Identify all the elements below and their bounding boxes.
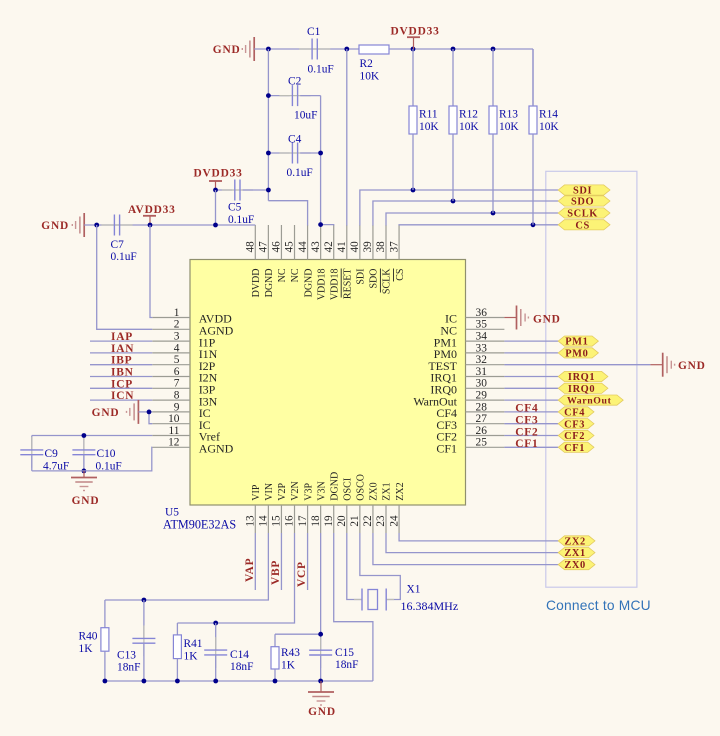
node C4 left junction — [266, 151, 271, 156]
node C14 top junction — [213, 621, 218, 626]
resistor R11 10K — [412, 49, 414, 106]
svg-text:30: 30 — [476, 378, 488, 390]
svg-text:9: 9 — [174, 401, 180, 413]
svg-text:C7: C7 — [111, 239, 125, 251]
svg-text:10K: 10K — [360, 71, 380, 83]
svg-text:SCLK: SCLK — [382, 268, 393, 294]
pin 20 OSCI (bottom) — [346, 505, 348, 533]
wire DGND pin 19 to bus — [334, 533, 373, 681]
svg-text:X1: X1 — [407, 584, 421, 596]
svg-text:DVDD: DVDD — [251, 269, 262, 298]
svg-text:ZX1: ZX1 — [382, 482, 393, 500]
svg-text:GND: GND — [308, 706, 336, 718]
svg-text:VIN: VIN — [264, 483, 275, 501]
svg-text:C5: C5 — [228, 202, 242, 214]
svg-text:47: 47 — [258, 241, 270, 253]
wire V2N pin 16 to R41 C14 bus — [177, 533, 294, 623]
pin 23 ZX1 (bottom) — [385, 505, 387, 533]
pin 38 SCLK (top) — [385, 225, 387, 260]
pin 11 Vref (left) — [152, 435, 190, 437]
svg-text:1K: 1K — [79, 643, 94, 655]
svg-text:SDI: SDI — [356, 269, 367, 285]
svg-text:OSCO: OSCO — [356, 474, 367, 501]
wire R13 lead — [492, 134, 494, 213]
node R11 R12 R13 R14 to SPI wires — [411, 188, 416, 193]
pin 32 TEST (right) — [466, 364, 505, 366]
wire R12 lead — [452, 134, 454, 201]
pin 29 WarnOut (right) — [466, 399, 505, 401]
svg-text:DVDD33: DVDD33 — [391, 26, 440, 38]
pin 15 V2P (bottom) — [280, 505, 282, 533]
pin 17 V3P (bottom) — [307, 505, 309, 533]
pin 13 VIP (bottom) — [254, 505, 256, 533]
svg-text:IBP: IBP — [111, 355, 132, 367]
svg-text:0.1uF: 0.1uF — [228, 214, 254, 226]
svg-text:C14: C14 — [230, 649, 249, 661]
svg-text:VAP: VAP — [244, 558, 256, 582]
wire SCLK pin 38 to flag — [386, 213, 558, 226]
port ZX1 flag — [558, 548, 595, 558]
svg-text:CF3: CF3 — [515, 415, 538, 427]
svg-text:18: 18 — [310, 515, 322, 527]
wire IRQ1 pin 31 to flag — [504, 376, 558, 378]
svg-text:0.1uF: 0.1uF — [111, 251, 137, 263]
svg-text:28: 28 — [476, 401, 488, 413]
wire CF2 pin 26 to flag — [504, 435, 558, 437]
pin 30 IRQ0 (right) — [466, 387, 505, 389]
wire PM0 pin 33 to flag — [504, 352, 558, 354]
op-amp U5 ATM90E32AS body — [190, 260, 466, 506]
svg-text:6: 6 — [174, 366, 180, 378]
svg-text:CS: CS — [395, 269, 406, 281]
pin 43 VDD18 (top) — [320, 225, 322, 260]
svg-text:10K: 10K — [539, 121, 559, 133]
port CF4 flag — [558, 407, 594, 417]
net label IBN pin 6 — [90, 376, 152, 378]
pin 1 AVDD (left) — [152, 317, 190, 319]
net label IBP pin 5 — [90, 364, 152, 366]
svg-text:4: 4 — [174, 342, 180, 354]
node C15 top junction — [318, 632, 323, 637]
svg-text:SDO: SDO — [571, 197, 594, 208]
wire PM1 pin 34 to flag — [504, 340, 558, 342]
svg-text:20: 20 — [336, 515, 348, 527]
svg-text:GND: GND — [678, 360, 706, 372]
svg-text:V3P: V3P — [303, 482, 314, 500]
svg-text:40: 40 — [349, 241, 361, 253]
port PM1 flag — [558, 336, 598, 346]
ground GND (below C9 C10) — [83, 471, 85, 477]
port IRQ1 flag — [558, 371, 608, 381]
svg-text:DVDD33: DVDD33 — [194, 168, 243, 180]
port PM0 flag — [558, 348, 598, 358]
svg-text:ZX0: ZX0 — [369, 482, 380, 500]
svg-text:SDO: SDO — [369, 269, 380, 289]
wire CS pin 37 to flag — [399, 224, 558, 227]
svg-text:36: 36 — [476, 307, 488, 319]
svg-text:C15: C15 — [335, 647, 354, 659]
wire V3N pin 18 through C15 — [320, 533, 322, 650]
svg-text:18nF: 18nF — [230, 661, 253, 673]
wire WarnOut pin 29 to flag — [504, 399, 558, 401]
svg-text:1K: 1K — [281, 660, 296, 672]
svg-text:25: 25 — [476, 437, 488, 449]
wire R11 lead — [412, 134, 414, 190]
svg-text:PM0: PM0 — [565, 349, 588, 360]
wire SDI pin 40 to flag — [360, 190, 558, 226]
wire CF3 pin 27 to flag — [504, 423, 558, 425]
svg-text:C4: C4 — [288, 134, 302, 146]
svg-text:DGND: DGND — [303, 269, 314, 298]
svg-text:39: 39 — [362, 241, 374, 253]
svg-text:SCLK: SCLK — [567, 209, 598, 220]
svg-text:V2P: V2P — [277, 482, 288, 500]
pin 9 IC (left) — [152, 411, 190, 413]
pin 16 V2N (bottom) — [294, 505, 296, 533]
pin 10 IC (left) — [152, 423, 190, 425]
svg-text:1K: 1K — [184, 651, 199, 663]
svg-text:CF2: CF2 — [564, 431, 585, 442]
svg-text:10uF: 10uF — [294, 110, 317, 122]
wire R43 bus — [275, 633, 321, 635]
svg-text:CS: CS — [575, 220, 589, 231]
svg-text:GND: GND — [213, 44, 241, 56]
wire ZX2 pin 24 to flag — [399, 533, 558, 541]
crystal X1 16.384MHz — [354, 599, 362, 601]
pin 33 PM0 (right) — [466, 352, 505, 354]
wire AVDD33 rail — [84, 224, 255, 226]
svg-text:R11: R11 — [419, 109, 438, 121]
svg-text:PM1: PM1 — [565, 337, 588, 348]
node DVDD33 junctions on rail — [266, 47, 271, 52]
wire VIN pin 14 to R40 C13 bus — [105, 533, 268, 600]
wire AVDD33 to pin 1 AVDD — [150, 225, 152, 318]
svg-text:46: 46 — [271, 241, 283, 253]
net label VAP pin 13 — [254, 533, 256, 590]
svg-text:11: 11 — [169, 425, 180, 437]
svg-text:GND: GND — [533, 313, 561, 325]
svg-text:15: 15 — [271, 515, 283, 527]
svg-text:ICP: ICP — [111, 378, 133, 390]
svg-text:45: 45 — [284, 241, 296, 253]
wire R2 to DVDD33 rail — [389, 48, 533, 50]
pin 7 I3P (left) — [152, 387, 190, 389]
net label IAP pin 3 — [90, 340, 152, 342]
pin 26 CF2 (right) — [466, 435, 505, 437]
svg-text:RESET: RESET — [342, 269, 353, 300]
svg-text:44: 44 — [297, 241, 309, 253]
wire bottom ground bus — [105, 680, 373, 682]
wire GND to C1 — [254, 48, 359, 50]
svg-text:22: 22 — [362, 515, 374, 526]
wire GND column elbow to pin 44 DGND — [268, 201, 307, 226]
svg-text:C9: C9 — [45, 448, 59, 460]
wire R14 lead — [532, 49, 534, 106]
resistor R41 1K — [176, 623, 178, 635]
node pin 9 junction — [147, 410, 152, 415]
svg-text:10K: 10K — [499, 121, 519, 133]
pin 45 NC (top) — [294, 225, 296, 260]
capacitor C4 — [268, 152, 289, 154]
svg-text:AGND: AGND — [199, 442, 234, 456]
wire OSCO pin 21 to crystal — [360, 533, 400, 600]
pin 8 I3N (left) — [152, 399, 190, 401]
port ZX2 flag — [558, 536, 595, 546]
wire VDD18 column to pins 42 43 — [320, 96, 322, 226]
svg-text:18nF: 18nF — [117, 662, 140, 674]
capacitor C1 — [299, 48, 330, 50]
port ZX0 flag — [558, 560, 595, 570]
svg-text:R40: R40 — [79, 631, 98, 643]
port CS flag — [558, 220, 610, 230]
svg-text:IBN: IBN — [111, 367, 134, 379]
pin 18 V3N (bottom) — [320, 505, 322, 533]
net label ICN pin 8 — [90, 399, 152, 401]
pin 24 ZX2 (bottom) — [398, 505, 400, 533]
pin 44 DGND (top) — [307, 225, 309, 260]
svg-text:42: 42 — [323, 241, 335, 252]
svg-text:12: 12 — [168, 437, 180, 449]
svg-text:16: 16 — [284, 515, 296, 527]
pin 48 DVDD (top) — [254, 225, 256, 260]
svg-text:19: 19 — [323, 515, 335, 527]
svg-text:13: 13 — [245, 515, 257, 527]
svg-text:26: 26 — [476, 425, 488, 437]
node bottom bus junctions — [103, 679, 108, 684]
svg-text:16.384MHz: 16.384MHz — [401, 599, 459, 613]
wire IRQ0 pin 30 to flag — [504, 387, 558, 389]
svg-text:CF3: CF3 — [564, 419, 585, 430]
capacitor C14 18nF — [215, 623, 217, 650]
capacitor C10 — [83, 436, 85, 450]
wire CF4 pin 28 to flag — [504, 411, 558, 413]
svg-text:IAN: IAN — [111, 343, 134, 355]
pin 21 OSCO (bottom) — [359, 505, 361, 533]
svg-text:CF1: CF1 — [436, 442, 457, 456]
svg-text:34: 34 — [476, 331, 488, 343]
svg-text:43: 43 — [310, 241, 322, 253]
net label VBP pin 15 — [280, 533, 282, 590]
svg-text:0.1uF: 0.1uF — [287, 167, 313, 179]
svg-text:GND: GND — [72, 495, 100, 507]
container rectangle Connect-to-MCU group — [546, 171, 637, 587]
svg-text:WarnOut: WarnOut — [567, 396, 612, 407]
capacitor C15 18nF — [320, 637, 322, 668]
svg-text:VIP: VIP — [251, 484, 262, 501]
svg-text:R43: R43 — [281, 647, 300, 659]
pin 3 I1P (left) — [152, 340, 190, 342]
pin 34 PM1 (right) — [466, 340, 505, 342]
pin 12 AGND (left) — [152, 446, 190, 448]
svg-text:CF1: CF1 — [515, 438, 538, 450]
port IRQ0 flag — [558, 383, 608, 393]
capacitor C7 — [101, 224, 132, 226]
svg-text:35: 35 — [476, 319, 488, 331]
node RESET junction — [344, 47, 349, 52]
svg-text:ICN: ICN — [111, 390, 134, 402]
svg-text:VCP: VCP — [296, 561, 308, 587]
svg-text:38: 38 — [375, 241, 387, 253]
svg-text:R2: R2 — [360, 58, 374, 70]
resistor R13 10K — [492, 49, 494, 106]
svg-text:AVDD33: AVDD33 — [128, 204, 176, 216]
svg-text:3: 3 — [174, 331, 180, 343]
svg-text:VBP: VBP — [270, 560, 282, 585]
pin 40 SDI (top) — [359, 225, 361, 260]
svg-text:IRQ0: IRQ0 — [568, 384, 595, 395]
svg-text:21: 21 — [349, 515, 361, 526]
port WarnOut flag — [558, 395, 623, 405]
port SCLK flag — [558, 208, 610, 218]
port SDI flag — [558, 185, 610, 195]
wire SDO pin 39 to flag — [373, 201, 558, 226]
capacitor C5 — [216, 189, 233, 191]
wire GND column — [267, 49, 269, 201]
wire GND to pins 9 10 — [138, 411, 152, 413]
svg-text:ZX2: ZX2 — [564, 537, 585, 548]
pin 4 I1N (left) — [152, 352, 190, 354]
pin 22 ZX0 (bottom) — [372, 505, 374, 533]
svg-text:CF4: CF4 — [564, 408, 585, 419]
pin 19 DGND (bottom) — [333, 505, 335, 533]
node C10 junctions — [82, 433, 87, 438]
svg-text:C2: C2 — [288, 76, 302, 88]
wire ZX0 pin 22 to flag — [373, 533, 558, 565]
wire RESET net R2 to pin 41 — [346, 49, 348, 226]
pin 5 I2P (left) — [152, 364, 190, 366]
svg-text:8: 8 — [174, 390, 180, 402]
port CF2 flag — [558, 430, 594, 440]
pin 47 DGND (top) — [267, 225, 269, 260]
pin 39 SDO (top) — [372, 225, 374, 260]
wire TEST pin 32 to GND — [504, 364, 650, 366]
svg-text:SDI: SDI — [573, 186, 592, 197]
port SDO flag — [558, 196, 610, 206]
ground GND (TEST) — [662, 353, 664, 377]
svg-text:41: 41 — [336, 241, 348, 252]
svg-text:32: 32 — [476, 354, 488, 366]
node C13 top junction — [142, 598, 147, 603]
svg-text:DGND: DGND — [329, 472, 340, 501]
svg-text:ZX0: ZX0 — [564, 560, 585, 571]
svg-text:0.1uF: 0.1uF — [308, 64, 334, 76]
net label ICP pin 7 — [90, 387, 152, 389]
svg-text:23: 23 — [375, 515, 387, 527]
net label IAN pin 4 — [90, 352, 152, 354]
svg-text:R41: R41 — [184, 638, 203, 650]
svg-text:27: 27 — [476, 413, 488, 425]
svg-text:ZX2: ZX2 — [395, 482, 406, 500]
pin 2 AGND (left) — [152, 328, 190, 330]
wire AGND branch to pin 2 — [97, 225, 153, 329]
node AVDD rail junctions — [94, 223, 99, 228]
svg-text:C13: C13 — [117, 650, 136, 662]
pin 41 RESET (top) — [346, 225, 348, 260]
capacitor C2 — [268, 95, 289, 97]
wire OSCI pin 20 to crystal — [347, 533, 362, 600]
svg-text:R13: R13 — [499, 109, 518, 121]
pin 28 CF4 (right) — [466, 411, 505, 413]
svg-text:37: 37 — [388, 241, 400, 253]
port CF1 flag — [558, 442, 594, 452]
svg-text:R14: R14 — [539, 109, 558, 121]
svg-text:NC: NC — [277, 268, 288, 282]
svg-text:OSCI: OSCI — [342, 478, 353, 501]
svg-text:R12: R12 — [459, 109, 478, 121]
pin 37 CS (top) — [398, 225, 400, 260]
svg-text:ZX1: ZX1 — [564, 548, 585, 559]
svg-text:GND: GND — [41, 220, 69, 232]
svg-text:7: 7 — [174, 378, 180, 390]
pin 14 VIN (bottom) — [267, 505, 269, 533]
svg-text:Connect to MCU: Connect to MCU — [546, 598, 651, 613]
capacitor C9 — [31, 436, 33, 450]
svg-text:C10: C10 — [97, 448, 116, 460]
resistor R12 10K — [452, 49, 454, 106]
wire AGND bottom to pin 12 — [32, 447, 153, 471]
net label VCP pin 17 — [307, 533, 309, 590]
svg-text:5: 5 — [174, 354, 180, 366]
svg-text:NC: NC — [290, 268, 301, 282]
svg-text:48: 48 — [245, 241, 257, 253]
svg-text:24: 24 — [388, 515, 400, 527]
wire ZX1 pin 23 to flag — [386, 533, 558, 553]
svg-text:GND: GND — [92, 407, 120, 419]
svg-text:DGND: DGND — [264, 269, 275, 298]
capacitor C13 18nF — [143, 600, 145, 638]
pin 35 NC (right) — [466, 328, 505, 330]
svg-text:10K: 10K — [459, 121, 479, 133]
svg-text:17: 17 — [297, 515, 309, 527]
svg-text:IRQ1: IRQ1 — [568, 372, 595, 383]
svg-text:ATM90E32AS: ATM90E32AS — [163, 518, 236, 532]
node C2 left junction — [266, 93, 271, 98]
svg-text:CF4: CF4 — [515, 403, 538, 415]
svg-text:33: 33 — [476, 342, 488, 354]
ground GND (pin 36) — [504, 317, 516, 319]
svg-text:18nF: 18nF — [335, 659, 358, 671]
svg-text:CF1: CF1 — [564, 443, 585, 454]
svg-text:14: 14 — [258, 515, 270, 527]
resistor R43 1K — [274, 634, 276, 647]
ground GND (bottom bus) — [320, 681, 322, 692]
pin 36 IC (right) — [466, 317, 505, 319]
svg-text:31: 31 — [476, 366, 488, 378]
svg-text:10K: 10K — [419, 121, 439, 133]
svg-text:C1: C1 — [307, 26, 321, 38]
svg-text:V2N: V2N — [290, 481, 301, 500]
svg-text:10: 10 — [168, 413, 180, 425]
wire CF1 pin 25 to flag — [504, 446, 558, 448]
pin 46 NC (top) — [280, 225, 282, 260]
svg-text:2: 2 — [174, 319, 180, 331]
node VDD18 junctions — [318, 151, 323, 156]
pin 25 CF1 (right) — [466, 446, 505, 448]
svg-text:IAP: IAP — [111, 331, 133, 343]
resistor R40 1K — [104, 600, 106, 628]
resistor R14 10K — [532, 49, 534, 106]
pin 6 I2N (left) — [152, 376, 190, 378]
svg-text:VDD18: VDD18 — [316, 269, 327, 301]
pin 31 IRQ1 (right) — [466, 376, 505, 378]
node C5 junctions — [213, 188, 218, 193]
svg-text:29: 29 — [476, 390, 488, 402]
port CF3 flag — [558, 419, 594, 429]
wire C5 branch down to AVDD rail — [215, 190, 217, 225]
svg-text:1: 1 — [174, 307, 180, 319]
svg-text:V3N: V3N — [316, 481, 327, 500]
pin 27 CF3 (right) — [466, 423, 505, 425]
